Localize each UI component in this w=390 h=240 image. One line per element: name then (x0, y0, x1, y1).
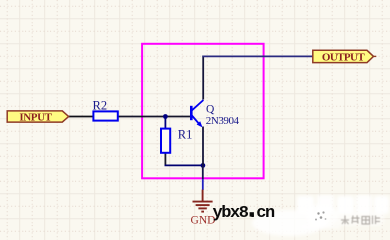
svg-text:Q: Q (206, 104, 215, 116)
power port GND (193, 190, 213, 212)
resistor R2 (93, 111, 117, 120)
node: junction at R1 top stub (163, 114, 168, 119)
watermark white cloud (252, 195, 389, 236)
svg-text:R1: R1 (178, 127, 193, 141)
svg-text:R2: R2 (93, 98, 108, 112)
wire: top horizontal to OUTPUT (202, 55, 313, 57)
wire: R1 bottom down (164, 152, 166, 165)
watermark text 大势硬件 (pseudo glyphs) (341, 216, 380, 225)
watermark logo mark (314, 209, 331, 226)
svg-text:2N3904: 2N3904 (206, 115, 240, 127)
port OUTPUT (313, 50, 377, 63)
svg-text:OUTPUT: OUTPUT (322, 51, 366, 63)
selection rectangle (magenta box) (142, 44, 264, 179)
wire: junction down through box edge (202, 165, 204, 179)
transistor Q1 2N3904 (NPN) (191, 100, 203, 127)
wire: INPUT to R2 (68, 116, 93, 118)
resistor R1 (161, 129, 170, 153)
wire: box edge down to GND (202, 179, 204, 190)
svg-text:ybx8.cn: ybx8.cn (213, 204, 276, 223)
svg-text:INPUT: INPUT (19, 111, 52, 123)
wire: R2 to transistor base (118, 116, 191, 118)
watermark period block (250, 212, 254, 216)
wire: collector up (202, 56, 204, 100)
node: junction at emitter net (201, 163, 206, 168)
wire: emitter down to junction (202, 127, 204, 166)
port INPUT (7, 111, 68, 123)
wire: stub down to R1 (164, 117, 166, 129)
wire: R1 bottom horizontal to emitter net (165, 164, 203, 166)
